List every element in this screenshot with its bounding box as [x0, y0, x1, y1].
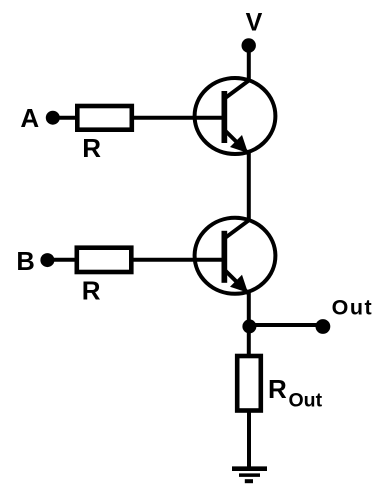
svg-text:R: R	[268, 374, 287, 404]
svg-text:Out: Out	[332, 296, 374, 320]
svg-text:B: B	[16, 248, 34, 276]
svg-text:Out: Out	[289, 390, 323, 412]
svg-text:R: R	[82, 133, 101, 163]
svg-text:V: V	[246, 9, 263, 37]
svg-text:A: A	[20, 103, 39, 133]
svg-text:R: R	[82, 276, 101, 306]
